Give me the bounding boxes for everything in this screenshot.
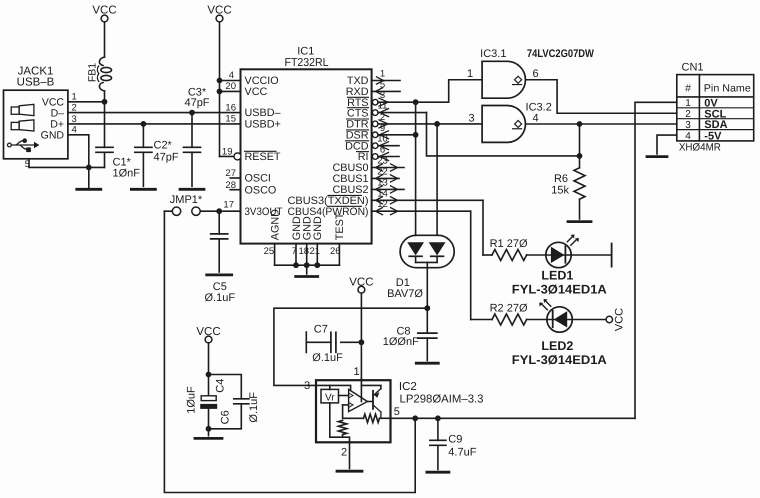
wire CN1 pin4 -5V to ground <box>657 135 677 154</box>
svg-text:1: 1 <box>685 98 691 109</box>
wire DSR to D1 node <box>378 134 416 136</box>
svg-text:XHØ4MR: XHØ4MR <box>679 141 721 153</box>
wire VCC node down to C1 <box>104 102 106 148</box>
wire C5 to ground <box>218 239 220 272</box>
pin stub 7 GND <box>295 244 297 266</box>
svg-text:1: 1 <box>380 69 385 80</box>
svg-text:LP298ØAIM–3.3: LP298ØAIM–3.3 <box>400 394 484 406</box>
wire feedback to amp input <box>343 404 349 406</box>
svg-text:USBD+: USBD+ <box>245 119 281 131</box>
svg-text:4.7uF: 4.7uF <box>448 447 476 459</box>
svg-text:C5: C5 <box>213 281 227 293</box>
wire SDA node down to R6 <box>579 124 581 168</box>
junction VCC rail / pin 20 <box>217 89 223 95</box>
svg-text:19: 19 <box>222 147 233 158</box>
svg-text:VCC: VCC <box>245 86 268 98</box>
wire D1 node to IC2 pin 3 <box>274 308 427 385</box>
terminal bar (LED1) <box>611 244 613 267</box>
wire VCC rail to pins 4,20 and RESET <box>219 22 221 156</box>
IC2 internal: error amplifier <box>349 389 368 411</box>
wire to R1 <box>483 254 492 256</box>
pin stub 6 RI <box>378 156 399 158</box>
wire IC2 pin5 output rail to CN1 0V <box>391 417 636 419</box>
connector CN1 table <box>677 75 754 141</box>
RESET inversion bubble pin 19 <box>234 153 241 160</box>
svg-text:CBUS4(PWRON): CBUS4(PWRON) <box>288 206 369 218</box>
pin stub 22 CBUS1 <box>372 177 399 179</box>
svg-text:C6: C6 <box>220 410 232 424</box>
bubble DCD <box>372 143 378 149</box>
svg-text:FB1: FB1 <box>87 63 99 82</box>
junction FB1 / JACK1 pin1 / C1 <box>102 99 108 105</box>
wire LED2 to VCC terminal <box>572 319 606 321</box>
diode D1 right element <box>429 242 446 255</box>
power terminal VCC (above IC1) <box>216 15 223 22</box>
svg-text:OSCI: OSCI <box>245 173 271 185</box>
svg-text:25: 25 <box>264 246 275 257</box>
capacitor C3 <box>184 146 201 148</box>
wire ground bus under IC1 <box>275 264 340 266</box>
pin stub 10 DCD <box>378 145 399 147</box>
wire pin 4 VCCIO <box>220 80 241 82</box>
bubble RI <box>372 154 378 160</box>
svg-text:R1 27Ø: R1 27Ø <box>490 238 528 250</box>
svg-text:LED1: LED1 <box>541 268 573 282</box>
svg-text:USB–B: USB–B <box>17 77 55 89</box>
bubble CTS <box>372 110 378 116</box>
wire CBUS4(PWRON) to R2 <box>372 210 471 212</box>
USB plug symbol upper <box>11 107 19 114</box>
wire CBUS3(TXDEN) to R1 <box>372 199 483 201</box>
wire pin 20 VCC <box>220 90 241 92</box>
junction C4/C6 top <box>206 372 212 378</box>
junction SDA / R6 <box>577 121 583 127</box>
ground (IC2) <box>337 470 362 473</box>
wire to ground <box>208 429 210 436</box>
svg-text:4: 4 <box>229 70 234 81</box>
svg-text:Ø.1uF: Ø.1uF <box>248 392 260 423</box>
wire RTS to IC3.1 input <box>378 101 449 103</box>
connector JACK1 USB-B <box>4 90 68 159</box>
svg-text:1ØnF: 1ØnF <box>113 168 141 180</box>
wire CBUS4 riser to R2 <box>470 211 472 319</box>
svg-text:1ØuF: 1ØuF <box>186 386 198 414</box>
svg-text:TEST: TEST <box>334 212 346 240</box>
svg-text:#: # <box>685 83 691 95</box>
wire RTS/DSR to D1 anode 1 <box>415 102 417 235</box>
wire JACK1 pin5 shield to GND node <box>29 159 105 168</box>
capacitor C4 (polarized) <box>201 396 216 401</box>
svg-text:OSCO: OSCO <box>245 184 277 196</box>
wire pin1 into regulator <box>360 379 362 401</box>
power terminal VCC (LED2) <box>606 316 612 322</box>
svg-text:27: 27 <box>225 168 236 179</box>
wire C1 to GND node <box>104 152 106 167</box>
svg-text:6: 6 <box>532 68 538 80</box>
svg-text:C9: C9 <box>448 434 462 446</box>
junction DTR / D1 anode 2 <box>434 121 440 127</box>
svg-text:C7: C7 <box>314 323 328 335</box>
svg-text:IC3.1: IC3.1 <box>480 48 506 60</box>
ground (USB jack) <box>77 188 101 191</box>
wire feedback node <box>343 405 364 418</box>
wire LED1 to terminal <box>571 254 611 256</box>
svg-text:D–: D– <box>51 107 65 119</box>
svg-text:AGND: AGND <box>269 209 281 240</box>
wire JMP1 rail to IC2 output (bottom rail) <box>164 211 415 492</box>
svg-text:BAV7Ø: BAV7Ø <box>387 288 423 300</box>
ground (CN1 -5V) <box>647 155 667 158</box>
wire C3 to ground <box>191 152 193 186</box>
wire D1 right cathode <box>436 256 438 262</box>
jumper JMP1 <box>172 207 180 215</box>
svg-text:FYL-3Ø14ED1A: FYL-3Ø14ED1A <box>512 353 607 367</box>
svg-text:C2*: C2* <box>154 140 173 152</box>
USB trident icon <box>7 143 11 147</box>
power terminal VCC (above IC2) <box>358 286 365 293</box>
ground (R6) <box>568 220 591 223</box>
wire D1 left cathode <box>415 256 417 262</box>
junction DSR on D1 anode wire <box>413 132 419 138</box>
IC U1: FT232RL body <box>241 69 372 243</box>
wire USB D+ net (JACK1 pin3 to IC1 USBD+) <box>68 123 241 125</box>
wire tap to Vr <box>329 385 331 389</box>
ground (C2) <box>131 188 155 191</box>
wire VCC terminal to FB1 <box>104 22 106 57</box>
resistor R1 <box>492 250 527 261</box>
ground (C3) <box>180 188 204 191</box>
capacitor C5 <box>211 233 228 235</box>
svg-text:FYL-3Ø14ED1A: FYL-3Ø14ED1A <box>512 283 607 297</box>
LED LED2 <box>547 307 572 332</box>
svg-text:15k: 15k <box>551 185 569 197</box>
pin stub 1 TXD <box>372 80 400 82</box>
LED LED1 <box>546 242 571 267</box>
junction 3V3OUT / C5 <box>216 208 222 214</box>
power terminal VCC (above C4) <box>205 336 212 343</box>
pin stub 18 GND <box>306 244 308 266</box>
junction output rail / bottom rail <box>412 415 418 421</box>
wire CBUS3 riser to R1 <box>482 200 484 255</box>
diode D1 left element <box>407 242 424 255</box>
svg-text:3: 3 <box>685 120 691 131</box>
wire IC3.1 output to CN1 SCL <box>526 80 677 114</box>
svg-text:VCC: VCC <box>349 276 373 288</box>
pin stub 5 RXD <box>372 90 400 92</box>
pin stub 23 CBUS0 <box>372 167 404 169</box>
junction GND bus 2 <box>304 262 310 268</box>
svg-text:IC2: IC2 <box>399 381 417 393</box>
svg-text:LED2: LED2 <box>541 339 573 353</box>
svg-text:28: 28 <box>225 180 236 191</box>
buffer IC3.2 (74LVC2G07) <box>482 106 525 143</box>
svg-text:7: 7 <box>292 246 297 257</box>
pin stub 21 GND <box>316 244 318 266</box>
svg-text:74LVC2G07DW: 74LVC2G07DW <box>527 48 595 60</box>
ground (C4/C6) <box>195 437 222 440</box>
svg-text:Ø.1uF: Ø.1uF <box>312 352 343 364</box>
junction D- / C3 <box>189 110 195 116</box>
wire to pin 5 <box>380 417 391 419</box>
bubble DSR <box>372 132 378 138</box>
wire R6 to ground <box>579 199 581 219</box>
wire D1 node to C8 <box>426 308 428 333</box>
svg-text:26: 26 <box>330 246 341 257</box>
pin stub 28 OSCO <box>230 189 240 191</box>
svg-text:47pF: 47pF <box>184 97 209 109</box>
capacitor C1 <box>96 146 113 148</box>
ground (C9) <box>427 471 449 474</box>
wire USB D- net (JACK1 pin2 to IC1 USBD-) <box>68 112 241 114</box>
svg-text:2: 2 <box>341 446 347 458</box>
pin stub 13 CBUS2 <box>372 188 404 190</box>
wire R2 to LED2 <box>527 319 547 321</box>
bubble RTS <box>372 99 378 105</box>
junction D1 / C8 / IC2 VIN line <box>424 305 430 311</box>
svg-text:21: 21 <box>310 246 321 257</box>
wire 3V3OUT to C5 <box>218 211 220 234</box>
svg-text:Ø.1uF: Ø.1uF <box>205 292 236 304</box>
svg-text:47pF: 47pF <box>154 152 179 164</box>
resistor R2 <box>492 314 527 325</box>
svg-text:3: 3 <box>468 113 474 125</box>
svg-text:R6: R6 <box>554 173 568 185</box>
wire rail to C9 <box>437 418 439 440</box>
wire IC3.2 output to CN1 SDA <box>526 123 677 125</box>
svg-text:1: 1 <box>467 68 473 80</box>
wire to pin 2 <box>343 437 350 442</box>
svg-text:FT232RL: FT232RL <box>285 57 330 69</box>
svg-text:3: 3 <box>304 380 310 392</box>
wire R1 to LED1 <box>527 254 546 256</box>
IC2 internal: feedback resistor (vertical) <box>338 420 346 434</box>
ground (C5) <box>207 273 232 276</box>
capacitor C7 <box>305 332 307 353</box>
wire C2 to ground <box>142 152 144 186</box>
svg-text:5: 5 <box>394 406 400 418</box>
diode D1 BAV70 (dual) package <box>400 235 454 267</box>
wire JACK1 pin4 (GND) to ground <box>68 135 89 189</box>
wire FB1 to VCC node <box>104 91 106 102</box>
svg-text:4: 4 <box>532 113 538 125</box>
svg-text:CN1: CN1 <box>682 62 704 74</box>
wire C8 to ground <box>426 338 428 360</box>
wire Vr bottom to gnd bus <box>330 403 343 437</box>
wire C6 branch bottom <box>209 404 242 429</box>
wire DTR to D1 anode 2 <box>436 124 438 235</box>
svg-text:1ØØnF: 1ØØnF <box>383 336 419 348</box>
wire VCC to C4 <box>208 343 210 375</box>
junction RTS / D1 anode 1 <box>413 99 419 105</box>
wire IC2 pin3 top run <box>316 385 351 389</box>
bubble DTR <box>372 121 378 127</box>
ground (IC1) <box>296 275 318 278</box>
resistor R6 <box>574 168 585 199</box>
svg-text:USBD–: USBD– <box>245 107 281 119</box>
svg-text:16: 16 <box>225 102 236 113</box>
ground (C8) <box>416 362 438 365</box>
svg-text:VCC: VCC <box>614 308 626 331</box>
USB plug symbol lower <box>11 122 19 129</box>
wire D- to C3 <box>191 113 193 148</box>
svg-text:15: 15 <box>225 114 236 125</box>
svg-text:GND: GND <box>41 130 65 142</box>
junction GND bus 1 <box>293 262 299 268</box>
junction output rail / C9 <box>435 415 441 421</box>
svg-text:IC1: IC1 <box>297 46 314 58</box>
wire JMP1 left to rail <box>164 210 172 212</box>
wire C9 to ground <box>437 445 439 469</box>
wire to RESET bubble <box>220 155 235 157</box>
junction VCC line / C7 <box>359 339 365 345</box>
svg-text:VCC: VCC <box>92 5 116 17</box>
capacitor C2 <box>135 146 152 148</box>
wire Vr to amp input <box>339 395 349 397</box>
wire to R2 <box>471 319 492 321</box>
svg-text:IC3.2: IC3.2 <box>526 102 552 114</box>
svg-text:4: 4 <box>685 131 691 142</box>
wire ground bus to ground <box>306 265 308 274</box>
junction VCC rail / pin 4 <box>217 78 223 84</box>
buffer IC3.1 (74LVC2G07) <box>482 61 525 98</box>
svg-text:20: 20 <box>225 81 236 92</box>
junction C4/C6 bottom <box>206 426 212 432</box>
svg-text:17: 17 <box>223 200 234 211</box>
junction CTS line / R6 <box>577 153 583 159</box>
svg-text:JMP1*: JMP1* <box>170 194 203 206</box>
regulator IC2 LP2980AIM-3.3 body <box>316 380 391 442</box>
wire D+ to C2 <box>142 124 144 147</box>
svg-text:C4: C4 <box>215 379 227 393</box>
svg-text:Vr: Vr <box>325 393 335 404</box>
wire to C4 plate <box>208 375 210 396</box>
svg-text:VCC: VCC <box>207 5 231 17</box>
wire IC2 pin2 to ground <box>349 442 351 468</box>
wire pin 17 3V3OUT to JMP1 <box>200 210 240 212</box>
pin stub 27 OSCI <box>230 177 240 179</box>
svg-text:R2 27Ø: R2 27Ø <box>490 302 528 314</box>
wire C4 to bottom node <box>208 409 210 429</box>
ferrite bead FB1 <box>99 57 104 66</box>
pin stub 25 AGND <box>274 244 276 266</box>
svg-text:VCC: VCC <box>196 326 220 338</box>
wire D1 common lead down <box>426 262 428 308</box>
junction GND bus 3 <box>314 262 320 268</box>
wire JACK1 pin1 (VCC) row <box>68 101 105 103</box>
IC2 internal: Vr reference box <box>321 389 339 403</box>
wire CTS to R6 node <box>427 113 580 156</box>
wire CN1 pin1 0V down to IC2 output rail <box>635 102 677 418</box>
wire pin1 to emitter <box>361 385 381 388</box>
wire CTS <box>378 112 427 114</box>
power terminal VCC (top-left) <box>101 15 108 22</box>
wire VCC to IC2 pin 1 <box>360 293 362 380</box>
IC2 internal: sense resistor (horizontal) <box>364 414 380 422</box>
pin stub 26 TEST <box>338 244 340 266</box>
wire C6 branch top <box>209 375 242 399</box>
svg-text:CTS: CTS <box>347 107 369 119</box>
wire RTS riser to IC3.1 input <box>449 80 482 102</box>
svg-text:Pin Name: Pin Name <box>704 82 751 94</box>
junction GND pin4/pin5/C1 <box>86 165 92 171</box>
svg-text:1: 1 <box>353 366 359 378</box>
wire amp out to transistor base <box>367 401 373 403</box>
wire DTR to IC3.2 input <box>378 123 482 125</box>
wire D1 common cathode <box>416 261 438 263</box>
svg-text:18: 18 <box>299 246 310 257</box>
svg-text:GND: GND <box>312 216 324 240</box>
svg-text:2: 2 <box>685 109 691 120</box>
svg-text:RESET: RESET <box>245 151 281 163</box>
junction D+ / C2 <box>141 121 147 127</box>
